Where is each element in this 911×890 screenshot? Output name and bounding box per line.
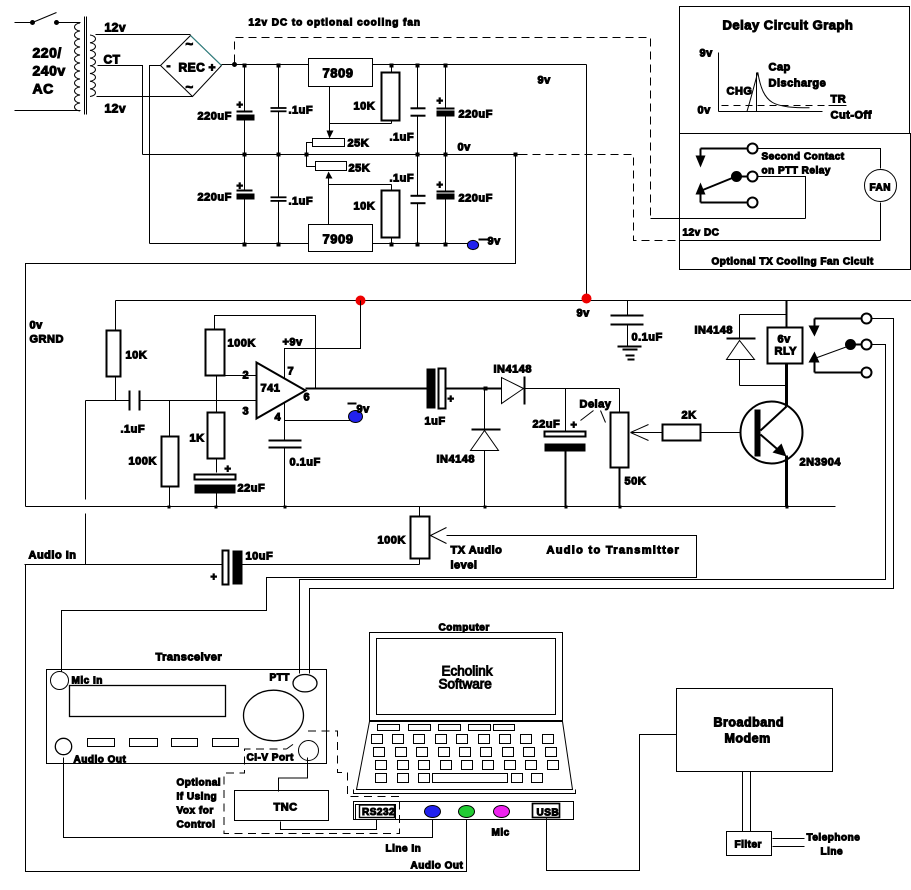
wire opamp output [306, 388, 427, 390]
node blue -9v dot opamp [348, 404, 371, 423]
svg-text:100K: 100K [378, 535, 406, 547]
wire 7909 node line [329, 184, 392, 186]
node A junction [484, 387, 488, 391]
laptop keys row 1 [372, 735, 554, 744]
svg-text:Line In: Line In [386, 844, 422, 855]
transceiver buttons [88, 739, 239, 747]
port CI-V [299, 741, 319, 761]
svg-text:CHG: CHG [727, 86, 753, 98]
capacitor C2 .1uF [271, 65, 314, 155]
wire feedback loop [215, 316, 316, 389]
relay K1 contact middle [846, 340, 872, 350]
svg-text:.1uF: .1uF [390, 173, 415, 185]
capacitor C15 10uF [211, 551, 274, 585]
svg-text:100K: 100K [129, 456, 157, 468]
wire middle contact to 12v [757, 177, 806, 219]
svg-text:Cut-Off: Cut-Off [831, 110, 872, 122]
wire top contact to PTT [310, 319, 894, 674]
graph charge line [756, 73, 758, 112]
node rail junction dots [243, 64, 448, 247]
svg-text:4: 4 [275, 412, 282, 424]
transistor Q1 2N3904 [741, 402, 842, 469]
svg-text:+9v: +9v [283, 337, 304, 349]
svg-text:Optional TX Cooling Fan Cicuit: Optional TX Cooling Fan Cicuit [712, 257, 874, 268]
relay K1 arm [809, 347, 848, 363]
svg-text:10K: 10K [126, 350, 148, 362]
wire 12v DC into fan box [651, 218, 806, 220]
svg-text:Mic: Mic [492, 828, 510, 839]
svg-text:25K: 25K [348, 138, 370, 150]
dashed vox control outline [224, 731, 400, 834]
svg-text:.1uF: .1uF [390, 132, 415, 144]
wire emitter to rail [785, 456, 788, 507]
label Cap Discharge [769, 62, 827, 90]
laptop screen [370, 633, 563, 721]
svg-text:TR: TR [831, 94, 847, 106]
diode D3 IN4148 flyback [695, 315, 756, 386]
label 220/240v AC [33, 45, 66, 97]
regulator U2 7809 [309, 59, 373, 87]
diode D1 IN4148 clamp [437, 389, 501, 507]
svg-text:7809: 7809 [323, 66, 354, 81]
svg-text:Control: Control [177, 820, 216, 831]
svg-text:Computer: Computer [439, 623, 490, 634]
svg-text:2K: 2K [682, 410, 697, 422]
wire mains bottom [15, 110, 81, 112]
label 0v GRND [30, 320, 64, 346]
svg-text:Delay Circuit Graph: Delay Circuit Graph [723, 18, 854, 33]
label TX Audio level [451, 545, 503, 572]
wire audio input riser [85, 401, 87, 565]
transceiver tuning knob [244, 690, 304, 741]
svg-text:Audio Out: Audio Out [74, 755, 127, 766]
wire delay node [526, 388, 620, 390]
node red 9v dot left [356, 296, 366, 306]
port PTT [293, 675, 317, 692]
wire fan to 0v [880, 203, 882, 241]
svg-text:Transceiver: Transceiver [156, 652, 223, 664]
port USB [533, 804, 560, 819]
bridge rectifier REC [161, 36, 222, 97]
wire +12v rail [222, 64, 587, 66]
wire REC minus to -9v rail [150, 66, 161, 244]
capacitor C9 .1uF input [86, 391, 257, 436]
svg-text:220uF: 220uF [459, 109, 493, 121]
regulator U3 7909 [309, 225, 373, 252]
wire top contact to fan [757, 149, 881, 169]
wire 9v down to opamp rail [586, 65, 588, 298]
svg-text:9v: 9v [538, 75, 552, 87]
svg-text:Line: Line [821, 847, 844, 858]
box Filter [727, 832, 772, 856]
svg-text:~: ~ [186, 37, 194, 52]
svg-text:7909: 7909 [323, 232, 354, 247]
wire 7809 gnd to 25K wiper [330, 87, 392, 124]
potentiometer VR1 25K [307, 124, 370, 155]
graph axes [719, 53, 823, 112]
connector Mic magenta [494, 806, 510, 818]
svg-text:50K: 50K [625, 476, 647, 488]
wire dashed 12v DC to fan [235, 38, 651, 219]
svg-text:+: + [225, 464, 232, 476]
wire opamp bottom rail [26, 506, 836, 508]
svg-text:+: + [437, 96, 444, 108]
svg-text:100K: 100K [228, 338, 256, 350]
node blue -9v output dot [467, 236, 501, 250]
svg-text:+: + [448, 394, 455, 406]
svg-text:REC: REC [179, 61, 206, 75]
svg-text:Cap: Cap [769, 62, 791, 74]
capacitor C7 .1uF [390, 155, 426, 244]
svg-text:GRND: GRND [30, 334, 64, 346]
svg-text:10K: 10K [354, 101, 376, 113]
transformer T1 core [85, 17, 87, 115]
svg-text:TNC: TNC [274, 802, 298, 814]
wire 1uF to diode node [446, 388, 502, 390]
potentiometer VR4 100K TX audio level [378, 507, 447, 565]
svg-text:+: + [209, 61, 217, 75]
svg-text:3: 3 [243, 406, 250, 418]
wire TX audio to mic in [62, 536, 697, 675]
wire flyback bottom [740, 385, 787, 387]
svg-text:AC: AC [33, 81, 54, 97]
svg-text:.1uF: .1uF [121, 424, 146, 436]
label Echolink Software [439, 664, 493, 692]
resistor R1 10K [354, 65, 400, 124]
svg-text:+: + [237, 100, 244, 112]
label Telephone Line [807, 833, 861, 858]
svg-text:9v: 9v [488, 236, 502, 248]
capacitor C6 220uF [437, 65, 493, 155]
svg-text:Modem: Modem [725, 732, 771, 746]
wire pin4 to -9v [285, 402, 353, 421]
port Mic In [51, 672, 103, 690]
connector Line In blue [425, 806, 441, 818]
svg-text:0v: 0v [30, 320, 44, 332]
capacitor C8 220uF [437, 155, 493, 244]
wire TNC to CI-V [279, 758, 308, 792]
wire pin2 node [215, 375, 257, 377]
svg-text:0v: 0v [458, 142, 472, 154]
capacitor C13 22uF delay [533, 389, 586, 507]
resistor R6 1K [190, 376, 225, 459]
label Delay with leaders [580, 399, 612, 423]
svg-text:220uF: 220uF [459, 193, 493, 205]
svg-text:1K: 1K [190, 433, 205, 445]
transformer T1 primary [75, 23, 80, 111]
svg-text:22uF: 22uF [238, 483, 266, 495]
svg-text:7: 7 [288, 366, 295, 378]
capacitor C1 220uF [198, 65, 255, 155]
wire secondary top tap to bridge [96, 34, 191, 36]
relay coil K1 6v RLY [768, 328, 803, 364]
wire TNC to RS232 [281, 819, 377, 830]
svg-text:~: ~ [186, 80, 194, 95]
svg-text:FAN: FAN [870, 183, 892, 194]
svg-text:12v DC: 12v DC [683, 228, 720, 239]
svg-text:Broadband: Broadband [714, 716, 784, 730]
wire USB to modem [547, 735, 677, 871]
node 0v junction dot [514, 153, 518, 157]
svg-text:RLY: RLY [775, 346, 798, 358]
wire middle contact to PTT [300, 345, 886, 674]
svg-text:Mic In: Mic In [72, 676, 103, 687]
node REC+ junction [233, 63, 237, 67]
box Broadband Modem [677, 689, 833, 772]
svg-text:Delay: Delay [580, 399, 612, 411]
fan relay contact bottom [701, 195, 758, 208]
resistor R5 100K feedback [206, 330, 256, 376]
ground symbol [618, 347, 642, 360]
label Optional If Using Vox for Control [177, 778, 222, 831]
box TNC [235, 791, 329, 821]
svg-text:on PTT Relay: on PTT Relay [762, 166, 831, 177]
capacitor C10 22uF [195, 459, 266, 507]
svg-text:Filter: Filter [735, 840, 762, 851]
wire -9v rail [150, 243, 473, 245]
wire dashed 0v to fan box [520, 155, 680, 241]
wire wiper to 2K [631, 432, 663, 434]
svg-text:Vox for: Vox for [177, 806, 214, 817]
transformer T1 secondary [90, 35, 95, 96]
svg-text:741: 741 [261, 383, 281, 395]
svg-text:Audio In: Audio In [29, 550, 77, 562]
svg-text:-: - [167, 59, 172, 73]
svg-text:9v: 9v [357, 404, 371, 416]
capacitor C11 0.1uF pin4 [269, 421, 321, 507]
wire pin7 to 9v [285, 301, 361, 379]
resistor R4 100K [129, 401, 179, 507]
svg-text:+: + [571, 420, 578, 432]
capacitor C12 1uF [425, 369, 455, 428]
capacitor C4 .1uF [271, 155, 314, 244]
wire CT tap [98, 66, 143, 155]
laptop keys row 2 [374, 748, 557, 757]
svg-text:0.1uF: 0.1uF [290, 457, 321, 469]
svg-text:Optional: Optional [177, 778, 222, 789]
fan motor FAN [865, 170, 897, 202]
svg-text:12v: 12v [105, 102, 127, 116]
label Second Contact on PTT Relay [762, 152, 845, 177]
svg-text:RS232: RS232 [362, 807, 395, 818]
svg-text:Audio Out: Audio Out [411, 861, 464, 872]
svg-text:level: level [451, 560, 478, 572]
svg-text:6v: 6v [778, 334, 792, 346]
node bottom rail dots [168, 506, 789, 509]
svg-text:240v: 240v [33, 63, 66, 79]
svg-text:Software: Software [439, 677, 492, 692]
svg-text:IN4148: IN4148 [695, 325, 733, 337]
laptop keyboard body [354, 722, 576, 794]
wire flyback top [740, 314, 787, 316]
graph cap discharge curve [747, 72, 810, 111]
relay K1 contact top [809, 314, 872, 337]
svg-text:2N3904: 2N3904 [800, 457, 842, 469]
svg-text:22uF: 22uF [533, 419, 561, 431]
port Audio Out [55, 738, 126, 765]
wire computer audio out to audio in [26, 565, 467, 872]
wire 2K to base [701, 432, 755, 434]
wire 0v return loop down-left [26, 155, 516, 507]
box Transceiver [47, 652, 327, 764]
svg-text:+: + [437, 180, 444, 192]
wire relay to 9v rail [786, 301, 788, 328]
wire +9v opamp rail [116, 300, 911, 302]
relay K1 contact bottom [815, 363, 872, 378]
box Optional TX Cooling Fan Circuit [680, 134, 911, 270]
svg-text:25K: 25K [349, 163, 371, 175]
svg-text:2: 2 [243, 370, 250, 382]
svg-text:220uF: 220uF [198, 192, 232, 204]
svg-text:220uF: 220uF [198, 111, 232, 123]
laptop keys row 3 [376, 761, 559, 770]
potentiometer VR3 50K [611, 389, 649, 507]
svg-text:CT: CT [104, 53, 121, 67]
capacitor C3 220uF [198, 155, 255, 244]
wire modem to filter [743, 772, 751, 832]
svg-text:9v: 9v [577, 308, 591, 320]
svg-text:6: 6 [304, 392, 311, 404]
diode D2 IN4148 series [494, 364, 532, 405]
svg-text:10K: 10K [354, 201, 376, 213]
laptop port strip [354, 802, 574, 820]
svg-text:Audio to Transmitter: Audio to Transmitter [547, 545, 681, 557]
port RS232 [356, 805, 396, 820]
svg-text:IN4148: IN4148 [494, 364, 532, 376]
connector Audio Out green [459, 806, 475, 818]
svg-text:10uF: 10uF [246, 551, 274, 563]
svg-text:Discharge: Discharge [769, 78, 827, 90]
wire 0v inside fan box [680, 240, 881, 242]
svg-text:12v DC to optional cooling fan: 12v DC to optional cooling fan [249, 18, 421, 29]
fan relay contact top [696, 144, 758, 168]
resistor R2 10K [354, 185, 400, 244]
svg-text:.1uF: .1uF [289, 105, 314, 117]
resistor R7 2K [663, 410, 701, 441]
svg-text:.1uF: .1uF [289, 196, 314, 208]
svg-text:Telephone: Telephone [807, 833, 861, 844]
svg-text:If Using: If Using [177, 792, 218, 803]
svg-text:9v: 9v [700, 48, 714, 60]
svg-text:0.1uF: 0.1uF [632, 332, 663, 344]
wire collector to relay [785, 364, 788, 407]
svg-text:1uF: 1uF [425, 416, 446, 428]
svg-text:12v: 12v [105, 21, 127, 35]
box Delay Circuit Graph [680, 7, 910, 134]
wire audio in line [25, 564, 222, 566]
capacitor C5 .1uF [390, 65, 426, 155]
svg-text:CI-V Port: CI-V Port [247, 753, 294, 764]
resistor R3 10K [107, 301, 148, 401]
mains switch S1 [15, 13, 81, 25]
wire audio out to line in [64, 758, 433, 838]
svg-text:0v: 0v [698, 105, 712, 117]
graph dashed TR cutoff level [722, 105, 828, 107]
svg-text:Second Contact: Second Contact [762, 152, 845, 163]
wire 0v rail [143, 154, 520, 156]
label TR Cut-Off [829, 94, 872, 122]
svg-text:+: + [211, 572, 218, 584]
fan relay arm [696, 178, 734, 195]
transceiver display [70, 686, 226, 717]
laptop keys row 4 with spacebar [376, 774, 543, 783]
svg-text:220/: 220/ [33, 45, 62, 61]
wire 10uF to pot [241, 564, 420, 566]
wire secondary bottom tap to bridge [97, 96, 193, 98]
capacitor C14 0.1uF rail [611, 301, 663, 346]
svg-text:TX Audio: TX Audio [451, 545, 503, 557]
fan relay contact middle [732, 172, 758, 182]
wire pin3 line [141, 400, 257, 402]
svg-text:USB: USB [537, 808, 560, 819]
svg-text:+: + [237, 181, 244, 193]
node red 9v dot right [582, 294, 592, 304]
svg-text:PTT: PTT [270, 673, 290, 684]
laptop function keys [378, 725, 515, 731]
potentiometer VR2 25K [307, 155, 371, 225]
wire telephone line [773, 839, 805, 847]
svg-text:IN4148: IN4148 [437, 454, 475, 466]
op-amp U1 741 [257, 363, 306, 419]
